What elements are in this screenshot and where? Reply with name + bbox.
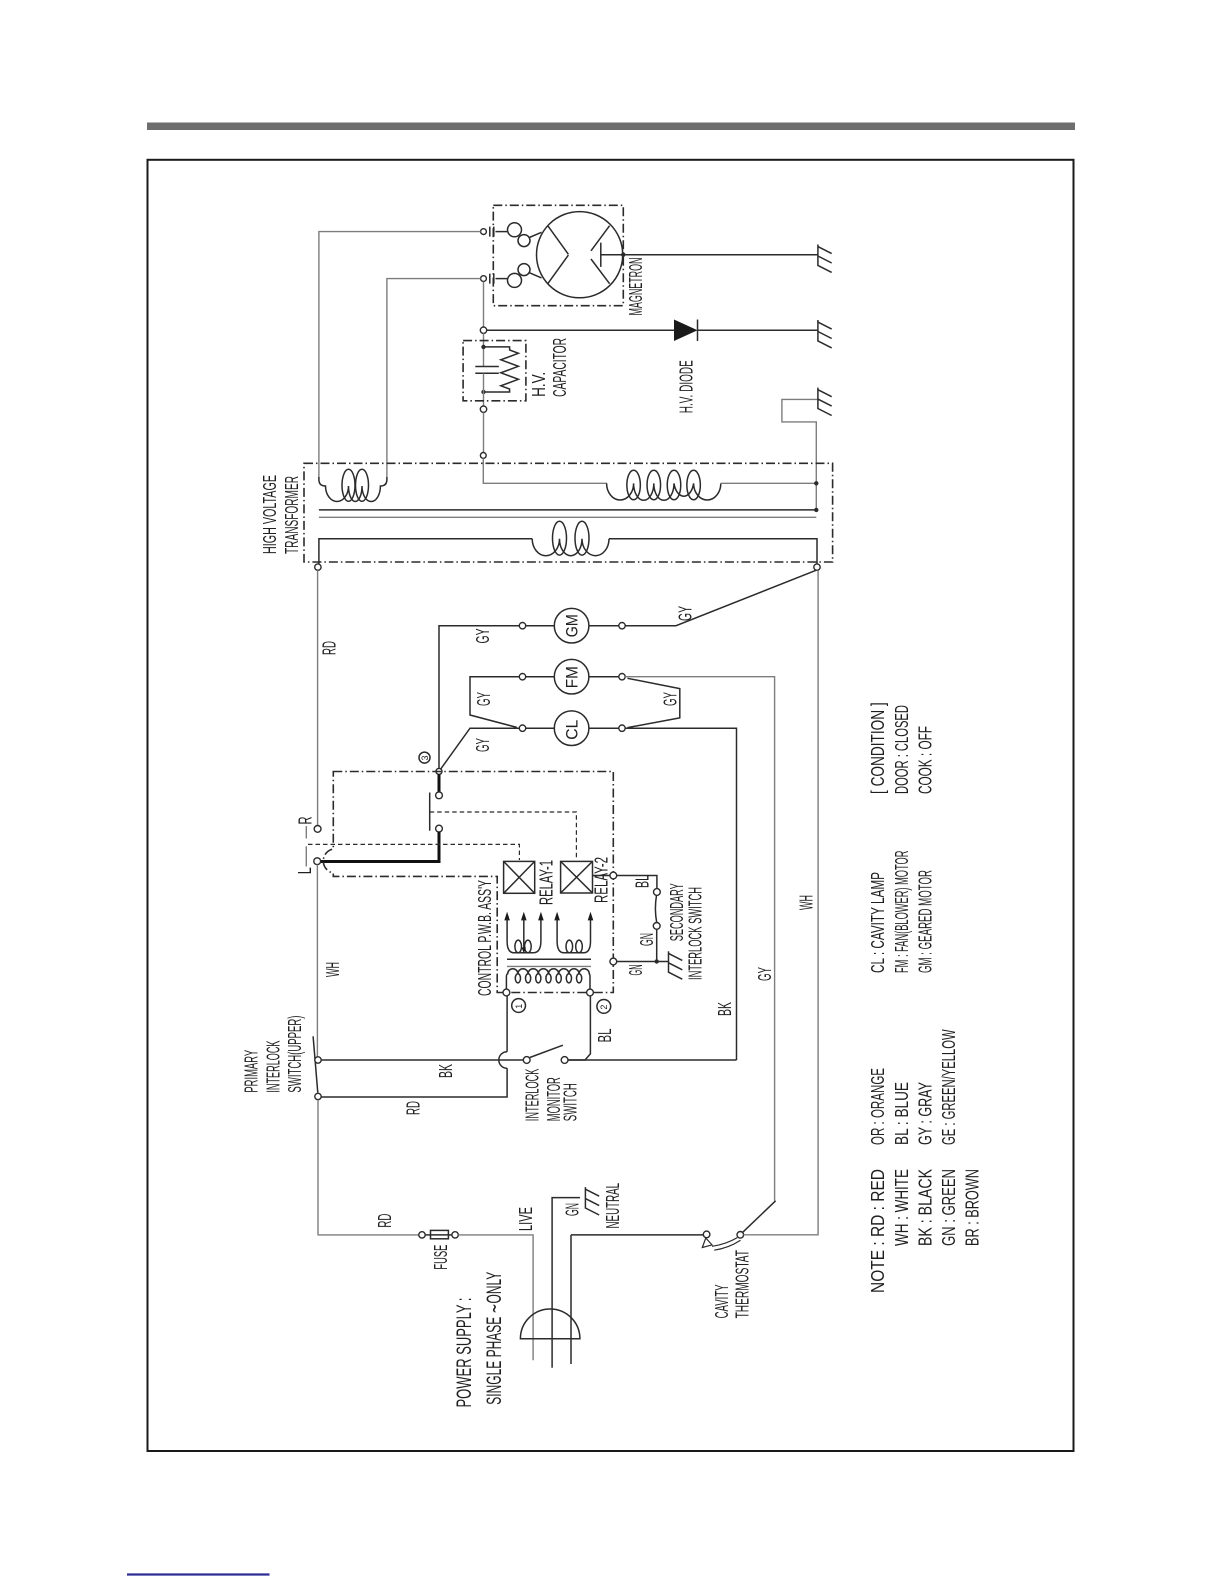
junction dot cap top <box>481 345 485 349</box>
svg-text:LIVE: LIVE <box>516 1207 536 1231</box>
wire CL right to BK drop <box>625 728 736 1060</box>
terminal below capacitor <box>480 406 486 412</box>
svg-text:BK: BK <box>715 1002 735 1016</box>
wire magnetron output to chassis ground <box>626 254 818 256</box>
FM leads <box>526 676 619 678</box>
wire into capacitor box <box>483 333 485 366</box>
chassis ground (transformer secondary) <box>818 388 832 416</box>
filament winding <box>319 477 387 501</box>
svg-text:POWER SUPPLY :: POWER SUPPLY : <box>453 1298 476 1408</box>
circled 3 <box>419 752 430 763</box>
svg-text:BL: BL <box>595 1029 615 1043</box>
secondary interlock blade <box>655 895 656 922</box>
magnetron cathode bar and output lead <box>601 243 624 267</box>
wire GM right diagonal to transformer <box>625 570 816 625</box>
bleeder resistor <box>484 347 519 392</box>
node 3 terminal on PWB edge <box>436 768 442 774</box>
svg-text:CL: CL <box>563 720 582 740</box>
svg-text:BK: BK <box>436 1064 456 1078</box>
motor/lamp CL circle <box>554 711 589 746</box>
svg-text:INTERLOCK: INTERLOCK <box>263 1041 283 1093</box>
wire CL left <box>440 728 519 770</box>
svg-text:GE : GREEN/YELLOW: GE : GREEN/YELLOW <box>939 1029 959 1145</box>
svg-text:GM: GM <box>563 614 582 637</box>
wire primary interlock to bottom rail <box>318 1100 419 1235</box>
svg-text:OR : ORANGE: OR : ORANGE <box>868 1068 888 1145</box>
wire HV terminal to winding <box>483 458 607 483</box>
svg-text:RELAY-1: RELAY-1 <box>537 860 557 905</box>
svg-text:GY: GY <box>473 629 493 644</box>
wire FM left <box>470 677 519 728</box>
motor/lamp GM circle <box>554 608 589 643</box>
thick feed from relay contact to L connector <box>319 832 439 862</box>
PWB transformer core lines <box>507 958 591 960</box>
svg-text:MAGNETRON: MAGNETRON <box>626 258 646 316</box>
PWB terminal 2 <box>587 989 594 996</box>
wire lower filament to transformer <box>387 279 481 477</box>
svg-text:GY: GY <box>676 606 696 621</box>
relay-1 coil with arrows <box>504 912 510 921</box>
relay RELAY-1 box <box>504 861 535 893</box>
svg-text:SINGLE PHASE ∼ONLY: SINGLE PHASE ∼ONLY <box>483 1272 506 1405</box>
page border frame <box>148 160 1074 1451</box>
H.V. diode <box>674 320 698 342</box>
svg-text:GN: GN <box>637 933 657 946</box>
svg-text:NEUTRAL: NEUTRAL <box>603 1183 623 1229</box>
svg-text:WH: WH <box>323 962 343 977</box>
wire upper filament to transformer <box>319 232 481 477</box>
svg-text:GY: GY <box>473 738 493 752</box>
CL leads <box>526 727 619 729</box>
svg-text:SECONDARY: SECONDARY <box>667 883 687 941</box>
svg-text:RD: RD <box>375 1214 395 1228</box>
svg-text:GY: GY <box>661 692 681 706</box>
svg-text:HIGH VOLTAGE: HIGH VOLTAGE <box>260 475 280 554</box>
relay RELAY-2 box <box>561 861 593 893</box>
svg-text:RD: RD <box>404 1101 424 1115</box>
FM terminal left <box>519 674 525 680</box>
svg-text:H.V.: H.V. <box>529 372 549 397</box>
wire FM right long gray GY rail <box>625 677 774 1201</box>
primary interlock blade <box>313 1036 318 1092</box>
transformer core lines <box>319 509 816 511</box>
svg-text:NOTE : RD : RED: NOTE : RD : RED <box>868 1169 888 1293</box>
relay switch blade <box>429 793 431 831</box>
feedthrough ticks upper <box>490 227 494 237</box>
svg-text:GY: GY <box>474 692 494 706</box>
wire GM left to relay node <box>439 626 519 769</box>
RD rail from transformer to R terminal <box>317 570 319 825</box>
wire filament terminal down to diode node <box>483 282 485 328</box>
svg-text:H.V. DIODE: H.V. DIODE <box>677 360 697 413</box>
svg-text:INTERLOCK: INTERLOCK <box>523 1069 543 1122</box>
svg-text:GN: GN <box>626 965 646 976</box>
primary interlock bottom contact <box>315 1093 321 1099</box>
svg-text:L: L <box>295 867 315 874</box>
svg-text:CAVITY: CAVITY <box>712 1284 732 1318</box>
svg-text:RELAY-2: RELAY-2 <box>592 857 612 903</box>
svg-text:BL : BLUE: BL : BLUE <box>892 1082 912 1145</box>
CL terminal left <box>519 725 525 731</box>
svg-text:WH : WHITE: WH : WHITE <box>892 1169 912 1246</box>
primary winding leads <box>319 539 532 564</box>
wire monitor to BL riser <box>568 996 590 1060</box>
high voltage secondary winding <box>607 483 721 500</box>
chassis ground (secondary interlock) <box>669 951 683 979</box>
svg-text:CL : CAVITY LAMP: CL : CAVITY LAMP <box>868 872 888 973</box>
CL terminal right <box>619 725 625 731</box>
chassis ground (magnetron) <box>818 245 832 273</box>
chassis ground (mains earth) <box>585 1187 599 1215</box>
svg-text:FM: FM <box>563 666 582 688</box>
wire fuse to LIVE corner <box>458 1235 533 1360</box>
svg-text:GM : GEARED MOTOR: GM : GEARED MOTOR <box>915 870 935 973</box>
control PWB dash-dot boundary <box>323 772 613 993</box>
svg-text:GN: GN <box>563 1203 583 1216</box>
chassis ground (H.V. diode) <box>818 320 832 348</box>
terminal at diode tap <box>480 327 486 333</box>
GN terminal on box edge <box>610 958 617 965</box>
thermostat bimetal blade <box>702 1238 740 1251</box>
magnetron anode X arms <box>548 225 610 284</box>
svg-text:R: R <box>296 817 316 825</box>
svg-text:SWITCH: SWITCH <box>561 1083 581 1121</box>
wire 1-terminal riser with hop <box>506 996 508 1052</box>
wire BK primary to monitor <box>321 1059 523 1061</box>
wire cap bottom <box>483 373 485 406</box>
svg-text:CONTROL P.W.B. ASS'Y: CONTROL P.W.B. ASS'Y <box>475 880 495 996</box>
relay-1 center double arrow <box>521 912 527 921</box>
wire relay2 to secondary interlock <box>593 876 657 889</box>
wire FM right to CL right link <box>628 678 680 727</box>
connector L terminal <box>314 858 321 865</box>
GM terminal right <box>619 623 625 629</box>
NEUTRAL line <box>571 1235 703 1364</box>
connector R terminal <box>314 826 321 833</box>
filament choke coil upper <box>496 231 508 233</box>
connector bracket ticks <box>305 826 307 838</box>
svg-text:[ CONDITION ]: [ CONDITION ] <box>868 702 888 794</box>
relay-2 output terminal on box edge <box>610 872 617 879</box>
wire GY diagonal from thermostat <box>743 1201 776 1233</box>
PWB terminal 1 <box>503 989 510 996</box>
filament choke coil lower <box>496 278 508 280</box>
magnetron tube circle <box>537 212 623 298</box>
PWB low voltage winding <box>506 969 590 989</box>
svg-text:FUSE: FUSE <box>431 1245 451 1270</box>
H.V. capacitor dash-dot box <box>463 341 526 401</box>
svg-text:BR : BROWN: BR : BROWN <box>963 1169 983 1246</box>
svg-text:WH: WH <box>797 895 817 910</box>
wire WH rail to thermostat <box>744 570 819 1235</box>
relay-2 coil with arrows <box>554 912 560 921</box>
svg-text:SWITCH(UPPER): SWITCH(UPPER) <box>285 1016 305 1093</box>
magnetron filament terminal (lower) <box>481 276 487 282</box>
junction dot at magnetron output <box>621 253 625 257</box>
relay linkage dashed to RELAY-2 <box>430 812 577 860</box>
circled 2 <box>597 1000 611 1014</box>
svg-text:BK : BLACK: BK : BLACK <box>915 1169 935 1246</box>
relay switch contact upper <box>438 774 441 791</box>
GN earth line <box>552 1198 580 1368</box>
junction dot cap bottom <box>481 390 485 394</box>
svg-text:BL: BL <box>633 875 653 888</box>
HV winding terminal <box>480 453 486 459</box>
svg-text:1: 1 <box>514 1004 524 1009</box>
footer blue rule <box>127 1573 270 1575</box>
GM leads <box>526 625 619 627</box>
wire to GN junction <box>656 929 658 961</box>
svg-text:3: 3 <box>420 755 430 760</box>
magnetron filament terminal (upper) <box>481 229 487 235</box>
circled 1 <box>512 999 526 1013</box>
svg-text:GN : GREEN: GN : GREEN <box>939 1169 959 1246</box>
primary interlock top contact <box>315 1057 321 1063</box>
high voltage transformer dash-dot box <box>304 463 833 562</box>
wire winding to core junction <box>721 483 817 510</box>
header gray bar <box>147 123 1075 131</box>
wire GN to ground <box>617 961 669 963</box>
svg-text:COOK : OFF: COOK : OFF <box>915 726 935 794</box>
fuse <box>419 1232 425 1238</box>
svg-text:GY : GRAY: GY : GRAY <box>915 1082 935 1145</box>
svg-text:2: 2 <box>599 1005 609 1010</box>
thermostat right contact <box>737 1232 744 1239</box>
wire diode to ground <box>698 329 818 331</box>
svg-text:TRANSFORMER: TRANSFORMER <box>282 476 302 554</box>
magnetron dash-dot enclosure <box>493 205 623 305</box>
svg-text:THERMOSTAT: THERMOSTAT <box>732 1250 752 1318</box>
relay switch contact lower <box>436 825 443 832</box>
secondary interlock top contact <box>654 889 661 896</box>
wire jog from transformer to chassis ground <box>782 399 818 483</box>
GM terminal left <box>519 623 525 629</box>
svg-text:DOOR : CLOSED: DOOR : CLOSED <box>892 705 912 794</box>
svg-text:CAPACITOR: CAPACITOR <box>550 338 570 397</box>
primary terminal left <box>315 564 321 570</box>
relay linkage dashed to RELAY-1 <box>308 844 519 860</box>
monitor switch blade <box>530 1045 563 1057</box>
primary terminal right <box>814 564 820 570</box>
primary winding <box>532 539 609 556</box>
wire monitor line to BK drop corner <box>568 1059 737 1061</box>
secondary interlock bottom contact <box>653 923 660 930</box>
motor/lamp FM circle <box>554 659 589 694</box>
power plug dome <box>520 1309 580 1339</box>
svg-text:RD: RD <box>320 641 340 655</box>
WH rail from L to primary interlock <box>316 865 318 1057</box>
monitor switch right contact <box>561 1057 568 1064</box>
svg-text:INTERLOCK SWITCH: INTERLOCK SWITCH <box>686 887 706 980</box>
wire diode line <box>487 329 674 331</box>
wire to transformer HV terminal <box>483 412 485 452</box>
monitor switch left contact <box>523 1057 530 1064</box>
feedthrough ticks lower <box>490 274 494 284</box>
svg-text:PRIMARY: PRIMARY <box>242 1050 262 1093</box>
svg-text:FM : FAN(BLOWER) MOTOR: FM : FAN(BLOWER) MOTOR <box>892 851 912 973</box>
FM terminal right <box>619 674 625 680</box>
capacitor plates <box>475 367 499 374</box>
svg-text:GY: GY <box>755 967 775 981</box>
thermostat left contact <box>703 1231 710 1238</box>
